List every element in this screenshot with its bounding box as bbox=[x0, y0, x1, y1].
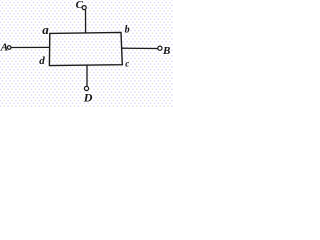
svg-text:a: a bbox=[42, 22, 49, 37]
svg-text:D: D bbox=[83, 91, 93, 105]
terminal D bbox=[84, 86, 88, 90]
wire D (bottom lead) bbox=[86, 65, 88, 86]
svg-text:A: A bbox=[0, 42, 8, 54]
terminal A bbox=[7, 46, 11, 50]
svg-text:B: B bbox=[162, 45, 170, 57]
wire A (left lead) bbox=[11, 46, 50, 48]
wire B (right lead) bbox=[122, 47, 158, 49]
svg-text:b: b bbox=[125, 25, 130, 36]
svg-text:d: d bbox=[39, 55, 45, 67]
svg-text:C: C bbox=[76, 0, 84, 11]
two-port network box (rectangle a-b-c-d) bbox=[49, 32, 122, 65]
terminal B bbox=[158, 46, 162, 50]
terminal C bbox=[82, 6, 86, 10]
svg-text:c: c bbox=[125, 59, 129, 69]
background halftone texture bbox=[0, 0, 173, 107]
wire C (top lead) bbox=[85, 10, 87, 33]
